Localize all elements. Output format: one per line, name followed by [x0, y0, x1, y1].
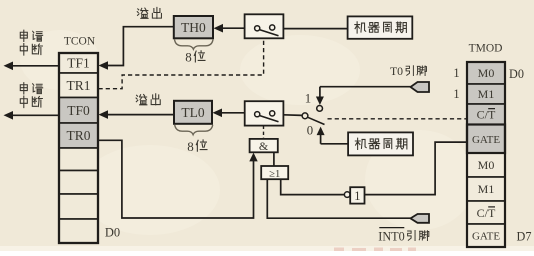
- svg-text:TR1: TR1: [66, 78, 90, 93]
- TMOD bit cell M0 (lower): [478, 158, 495, 172]
- wire INT0 pin to or-gate: [267, 179, 410, 218]
- TMOD bit cell C/T (lower): [477, 206, 496, 220]
- brace and label 8位 (TL0): [175, 125, 213, 154]
- register TCON: [59, 53, 98, 243]
- dashed control wire AND gate to S2: [263, 126, 265, 139]
- and-gate &: [250, 139, 278, 153]
- label INT0引脚 with overline: [378, 228, 429, 244]
- svg-text:GATE: GATE: [472, 134, 500, 146]
- svg-text:8: 8: [187, 139, 194, 154]
- svg-text:M0: M0: [478, 158, 495, 172]
- counter TH0: [174, 16, 213, 38]
- switch S1 (TH0 count enable): [245, 14, 284, 38]
- TMOD bit cell GATE (upper): [472, 134, 500, 146]
- TMOD bit cell M1 (upper): [478, 87, 495, 101]
- wire or-gate to and-gate: [273, 152, 275, 166]
- label T0引脚: [390, 64, 427, 78]
- box 机器周期 (lower): [348, 132, 413, 155]
- wire machine cycle to contact 0: [321, 143, 349, 145]
- svg-text:D0: D0: [509, 67, 524, 81]
- svg-text:D0: D0: [105, 226, 120, 240]
- box 机器周期 (upper): [348, 16, 413, 38]
- pin T0: [411, 82, 430, 92]
- svg-text:TL0: TL0: [181, 105, 204, 120]
- label 1 (M1 preset): [453, 87, 459, 101]
- svg-text:TMOD: TMOD: [469, 43, 503, 55]
- selector pole: [302, 113, 324, 125]
- svg-text:C/T: C/T: [477, 108, 496, 122]
- label 1 (contact): [305, 91, 311, 105]
- label D7 (TMOD): [517, 230, 532, 244]
- TMOD bit cell C/T (upper): [477, 108, 496, 122]
- svg-text:M0: M0: [478, 66, 495, 80]
- brace and label 8位 (TH0): [175, 40, 214, 65]
- dashed control wire C/T to selector: [328, 118, 467, 120]
- TCON bit cell TF1: [67, 56, 90, 71]
- TMOD bit cell M0 (upper): [478, 66, 495, 80]
- selector contact 1: [316, 87, 324, 112]
- label D0 (TCON): [105, 226, 120, 240]
- dashed control wire TR1 to S1: [99, 38, 264, 88]
- wire machine cycle to S1: [283, 28, 347, 30]
- wire TL0 overflow to TF0: [99, 110, 175, 119]
- wire or-gate to inverter: [281, 179, 345, 194]
- inverter 1 (bubble input): [344, 187, 364, 203]
- label 1 (M0 preset): [453, 66, 459, 80]
- wire S2 to selector pole: [283, 114, 302, 117]
- svg-text:INT0: INT0: [378, 230, 404, 244]
- svg-text:M1: M1: [478, 87, 495, 101]
- svg-text:1: 1: [453, 66, 459, 80]
- label 申请中断 (lower): [20, 83, 42, 108]
- svg-text:1: 1: [453, 87, 459, 101]
- wire GATE to inverter: [365, 142, 467, 195]
- wire TR0 to and-gate: [98, 140, 258, 218]
- svg-text:≥1: ≥1: [269, 169, 280, 180]
- svg-text:TCON: TCON: [64, 36, 96, 48]
- svg-text:GATE: GATE: [472, 231, 500, 243]
- wire interrupt request from TF1: [4, 62, 60, 71]
- wire S1 to TH0: [214, 24, 245, 33]
- pin INT0: [411, 214, 430, 223]
- svg-text:C/T: C/T: [477, 206, 496, 220]
- label TMOD: [469, 43, 503, 55]
- TCON bit cell TR1: [66, 78, 90, 93]
- label 0 (contact): [307, 124, 313, 138]
- counter TL0: [174, 101, 212, 124]
- svg-text:1: 1: [305, 91, 311, 105]
- label 溢出 (TH0): [137, 7, 161, 18]
- register TMOD: [467, 62, 505, 247]
- TMOD bit cell M1 (lower): [478, 182, 495, 196]
- or-gate >=1: [261, 166, 288, 180]
- wire TH0 overflow to TF1: [99, 27, 174, 70]
- label TCON: [64, 36, 96, 48]
- svg-text:T0: T0: [390, 64, 403, 78]
- svg-text:8: 8: [185, 50, 192, 65]
- svg-text:TH0: TH0: [181, 20, 206, 35]
- svg-text:0: 0: [307, 124, 313, 138]
- svg-text:TF0: TF0: [67, 103, 90, 118]
- svg-text:TR0: TR0: [66, 128, 90, 143]
- svg-text:D7: D7: [517, 230, 532, 244]
- label 溢出 (TL0): [136, 94, 160, 105]
- TCON bit cell TR0: [66, 128, 90, 143]
- selector contact 0: [317, 127, 325, 144]
- svg-text:&: &: [259, 139, 269, 153]
- switch S2 (TL0 count enable): [245, 101, 284, 125]
- svg-text:1: 1: [354, 189, 360, 203]
- wire T0 pin to contact 1: [320, 86, 411, 88]
- svg-text:M1: M1: [478, 182, 495, 196]
- TCON bit cell TF0: [67, 103, 90, 118]
- wire S2 to TL0: [213, 109, 245, 118]
- TMOD bit cell GATE (lower): [472, 231, 500, 243]
- label D0 (TMOD): [509, 67, 524, 81]
- svg-text:TF1: TF1: [67, 56, 90, 71]
- wire interrupt request from TF0: [4, 111, 60, 120]
- label 申请中断 (upper): [20, 30, 42, 55]
